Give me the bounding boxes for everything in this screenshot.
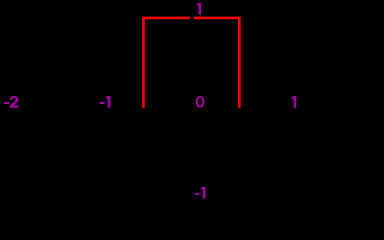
wire: red square pulse curve	[143, 18, 239, 108]
node label 1 (x-axis)	[292, 96, 297, 108]
node label -1 (y-axis, bottom)	[195, 187, 206, 199]
wire: black y-axis gap over top segment	[190, 16, 194, 22]
node label -1 (x-axis)	[100, 96, 111, 108]
node label -2 (x-axis)	[4, 96, 18, 108]
node label 1 (y-axis, top)	[197, 3, 202, 15]
node label 0 (x-axis)	[196, 96, 205, 108]
